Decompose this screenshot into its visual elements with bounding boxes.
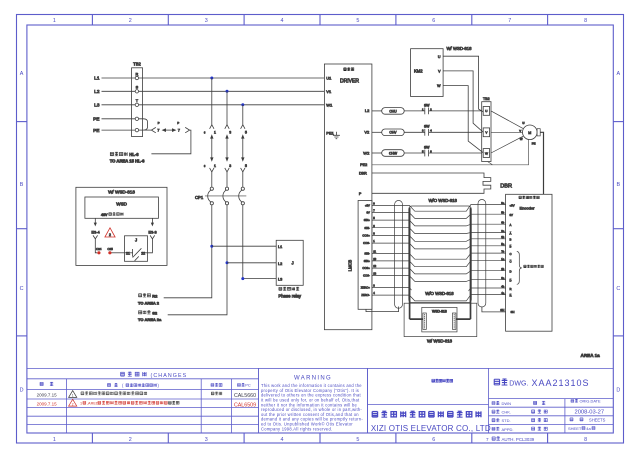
- pin 7b encoder C: [501, 249, 511, 256]
- svg-text:3: 3: [229, 130, 231, 134]
- svg-text:5a: 5a: [501, 242, 504, 246]
- svg-text:22: 22: [141, 251, 145, 255]
- wire encoder signal SIN+: [372, 220, 506, 226]
- wire motor to encoder: [540, 132, 543, 194]
- svg-text:CHK.: CHK.: [502, 410, 512, 415]
- svg-text:WARNING: WARNING: [294, 375, 332, 381]
- motor M: [523, 125, 541, 140]
- svg-text:SHEET: SHEET: [568, 426, 582, 431]
- svg-text:8: 8: [584, 437, 587, 443]
- contactor CP1 linkage: [205, 195, 246, 197]
- LMCB block: [347, 201, 372, 310]
- svg-text:SIN+: SIN+: [364, 218, 370, 222]
- wire PE to connector: [139, 129, 152, 131]
- wire encoder signal 0V: [372, 213, 506, 219]
- svg-text:PE2: PE2: [360, 163, 367, 167]
- svg-text:C: C: [510, 260, 512, 264]
- svg-text:E3-4: E3-4: [91, 230, 100, 235]
- wire TB2 PE tap: [488, 162, 493, 165]
- svg-text:W: W: [520, 137, 523, 141]
- wire shield SH left: [366, 307, 399, 312]
- svg-text:8: 8: [584, 18, 587, 24]
- svg-text:4: 4: [281, 18, 284, 24]
- wire S2 to area 2a: [168, 205, 227, 315]
- svg-text:TO AREA 2: TO AREA 2: [138, 300, 160, 305]
- svg-text:2: 2: [109, 233, 111, 237]
- svg-text:TO AREA 2a: TO AREA 2a: [138, 317, 162, 322]
- wire TB2 V to motor: [491, 131, 523, 133]
- svg-text:CHU: CHU: [389, 109, 397, 113]
- wire encoder signal ZERO-: [372, 295, 506, 301]
- svg-text:L2: L2: [278, 262, 282, 266]
- wire encoder signal ZERO+: [372, 288, 506, 294]
- label encoder positioning use: [524, 265, 526, 268]
- node junction phase 2: [226, 90, 229, 93]
- wire CHW segment: [372, 152, 382, 154]
- svg-text:U: U: [438, 55, 441, 59]
- node phase relay L1 tap: [210, 245, 213, 248]
- wire CHW to SW: [404, 152, 425, 154]
- label S2 TO AREA 2a: [138, 310, 162, 322]
- encoder block: [506, 194, 552, 331]
- svg-text:APPD.: APPD.: [502, 427, 514, 432]
- wire SW to TB2 CHV: [429, 131, 482, 133]
- svg-text:6a: 6a: [501, 276, 504, 280]
- svg-text:2: 2: [129, 18, 132, 24]
- wire SW to TB2 CHU: [429, 110, 482, 112]
- svg-text:R: R: [136, 72, 139, 76]
- switch SW 5-6: [422, 145, 432, 156]
- wire to CP1 pole 3: [242, 172, 244, 187]
- connector plug arrow 1: [211, 138, 213, 159]
- svg-text:P: P: [158, 121, 160, 125]
- pin 2b encoder D: [501, 267, 511, 274]
- svg-text:D: D: [510, 270, 512, 274]
- svg-text:3: 3: [373, 284, 375, 288]
- svg-text:CAL5660: CAL5660: [234, 393, 256, 399]
- svg-text:6: 6: [432, 18, 435, 24]
- svg-text:12: 12: [373, 264, 376, 268]
- connector plug arrow 2: [226, 138, 228, 159]
- wire L3/T phase: [139, 104, 325, 106]
- svg-text:ORIG.DATE: ORIG.DATE: [580, 399, 602, 404]
- svg-text:TO AREA 15 HL-6: TO AREA 15 HL-6: [110, 158, 145, 163]
- plug assembly box: [404, 303, 477, 336]
- wire KM2 W to TB2: [443, 86, 483, 153]
- svg-text:D: D: [616, 388, 620, 394]
- svg-text:8: 8: [373, 232, 375, 236]
- svg-text:PE: PE: [93, 128, 99, 134]
- svg-text:V1: V1: [326, 89, 332, 94]
- svg-text:V: V: [438, 70, 441, 74]
- svg-text:CAL6509: CAL6509: [234, 402, 256, 408]
- svg-text:COS-: COS-: [363, 274, 370, 278]
- brace encoder position signals: [517, 252, 522, 285]
- svg-text:(: (: [122, 383, 124, 388]
- svg-text:AREA 1a: AREA 1a: [581, 353, 601, 358]
- svg-text:XIZI OTIS ELEVATOR CO., LTD: XIZI OTIS ELEVATOR CO., LTD: [371, 424, 491, 433]
- svg-text:V: V: [519, 129, 521, 133]
- svg-text:S: S: [136, 86, 139, 90]
- wire PE2 to motor: [372, 140, 529, 165]
- svg-text:D: D: [20, 388, 24, 394]
- terminal block TB2 (incoming): [132, 62, 143, 137]
- wire phase 3 drop: [242, 105, 244, 125]
- svg-text:2008-03-27: 2008-03-27: [574, 410, 604, 416]
- wire encoder signal SIN+: [372, 261, 506, 267]
- terminal C24: [97, 251, 100, 254]
- svg-text:TB2: TB2: [133, 62, 141, 67]
- svg-text:U: U: [485, 109, 487, 113]
- wire encoder signal COS+: [372, 236, 506, 242]
- PE jumper TB2: [139, 119, 148, 130]
- node phase relay L2 tap: [226, 261, 229, 264]
- connector pin 5 upper half: [241, 125, 245, 129]
- svg-text:SH: SH: [511, 310, 515, 314]
- svg-text:LMCB: LMCB: [347, 260, 352, 272]
- svg-text:5b: 5b: [501, 211, 504, 215]
- svg-text:TB2: TB2: [483, 97, 490, 101]
- wire TB2 W to motor: [491, 136, 523, 153]
- svg-text:W/ WSD-818: W/ WSD-818: [447, 46, 473, 51]
- choke CHU: [382, 108, 405, 115]
- wire CHU to SW: [404, 110, 425, 112]
- svg-text:3: 3: [205, 18, 208, 24]
- svg-text:5: 5: [356, 437, 359, 443]
- svg-text:1: 1: [373, 239, 375, 243]
- svg-text:,ARED: ,ARED: [87, 401, 99, 405]
- wire phase 2 drop: [226, 91, 228, 124]
- svg-text:Phase relay: Phase relay: [278, 294, 302, 299]
- node phase relay L3 corner: [241, 277, 244, 280]
- svg-text:2: 2: [129, 437, 132, 443]
- contactor CP1 pole 2: [225, 187, 228, 190]
- svg-text:KM2: KM2: [414, 69, 423, 74]
- contactor CP1 pole 1: [210, 187, 213, 190]
- label R2 TO AREA 2: [138, 293, 160, 305]
- svg-text:11: 11: [373, 250, 376, 254]
- svg-text:2b: 2b: [501, 267, 504, 271]
- wire encoder signal SIN-: [372, 253, 506, 259]
- svg-text:D: D: [510, 279, 512, 283]
- WSD-818 plug: [422, 307, 457, 332]
- svg-text:W/O WSD-818: W/O WSD-818: [425, 291, 454, 296]
- svg-text:DRIVER: DRIVER: [340, 79, 359, 85]
- wire to phase relay L2: [227, 262, 276, 264]
- svg-text:COS+: COS+: [362, 266, 370, 270]
- svg-text:7: 7: [508, 18, 511, 24]
- svg-text:W/O WSD-818: W/O WSD-818: [428, 198, 457, 203]
- svg-text:L2: L2: [94, 89, 100, 95]
- svg-text:+5V: +5V: [365, 204, 370, 208]
- svg-text:4b: 4b: [501, 284, 504, 288]
- phase relay J box: [276, 240, 303, 285]
- connector pin 3 upper half: [225, 125, 229, 129]
- WSD-818 interface box: [76, 187, 167, 265]
- svg-text:S2: S2: [152, 310, 158, 315]
- svg-text:DBR: DBR: [359, 172, 367, 176]
- wire encoder signal +5V: [372, 205, 506, 212]
- svg-text:C24: C24: [96, 247, 102, 251]
- svg-text:AUTH. PCL3039: AUTH. PCL3039: [502, 437, 535, 442]
- svg-text:P: P: [177, 121, 179, 125]
- switch SW 3-4: [422, 125, 432, 136]
- svg-text:5: 5: [245, 164, 247, 168]
- choke CHV: [382, 129, 405, 136]
- svg-text:DWN: DWN: [502, 401, 512, 406]
- svg-text:R2: R2: [152, 293, 158, 298]
- svg-text:STD.: STD.: [502, 418, 511, 423]
- svg-text:C: C: [616, 286, 620, 292]
- svg-text:PE1: PE1: [326, 130, 334, 135]
- cable bundle W/O WSD-818: [409, 206, 472, 319]
- svg-text:COS-: COS-: [363, 241, 370, 245]
- resistor DBR: [372, 173, 512, 193]
- svg-text:U1: U1: [326, 76, 332, 81]
- svg-text:2009.7.15: 2009.7.15: [37, 402, 58, 407]
- wire WSD to E3-4: [94, 218, 96, 224]
- terminal block TB2 (machine): [482, 97, 491, 162]
- WSD 48V start signal block: [85, 197, 158, 218]
- cable gland left: [395, 201, 403, 309]
- svg-text:L2: L2: [365, 108, 370, 113]
- terminal C25: [108, 251, 111, 254]
- connector plug arrow 3: [242, 138, 244, 159]
- wire connector to HL-6 note: [151, 130, 191, 154]
- svg-text:WSD-818: WSD-818: [432, 309, 447, 313]
- svg-text:PE: PE: [93, 117, 99, 123]
- wire R2 to area 2: [164, 205, 212, 298]
- svg-text:T: T: [136, 99, 139, 103]
- svg-text:6: 6: [204, 130, 206, 134]
- cable drop to plug: [410, 318, 471, 320]
- svg-text:7: 7: [178, 128, 181, 133]
- svg-text:U: U: [522, 121, 524, 125]
- contactor CP1 pole 3: [241, 187, 244, 190]
- svg-text:0V: 0V: [367, 211, 370, 215]
- pin 2a encoder A: [501, 229, 511, 236]
- svg-text:W2: W2: [363, 150, 370, 155]
- svg-text:W: W: [485, 151, 488, 155]
- switch SW 1-2: [422, 103, 432, 114]
- svg-text:1: 1: [214, 164, 216, 168]
- svg-text:21: 21: [126, 251, 130, 255]
- svg-text:ZERO+: ZERO+: [361, 286, 370, 290]
- svg-text:B: B: [510, 238, 512, 242]
- inverter DRIVER U1: [324, 64, 372, 330]
- svg-text:2: 2: [72, 402, 74, 406]
- pin 6a encoder D: [501, 276, 511, 283]
- svg-text:Company 1998.All rights reserv: Company 1998.All rights reserved.: [261, 426, 332, 431]
- relay contact J 21-22: [125, 236, 148, 261]
- svg-text:SIN-: SIN-: [364, 252, 369, 256]
- wire encoder signal COS-: [372, 276, 506, 282]
- svg-text:DWG.: DWG.: [509, 381, 528, 388]
- svg-text:A: A: [20, 71, 24, 77]
- svg-text:1: 1: [53, 437, 56, 443]
- svg-text:M: M: [528, 131, 531, 135]
- cable gland right: [478, 200, 486, 308]
- svg-text:SIN+: SIN+: [364, 259, 370, 263]
- svg-text:COS+: COS+: [362, 234, 370, 238]
- svg-text:4: 4: [281, 437, 284, 443]
- svg-text:Encoder: Encoder: [520, 205, 536, 210]
- node junction phase 1: [210, 77, 213, 80]
- pin 5a encoder B: [501, 242, 511, 249]
- ground PE1: [333, 132, 340, 139]
- svg-text:B: B: [510, 245, 512, 249]
- wire phase 1 drop: [211, 78, 213, 125]
- wire encoder signal COS-: [372, 243, 506, 249]
- svg-text:7: 7: [373, 209, 375, 213]
- svg-text:P: P: [359, 192, 362, 196]
- label W/O WSD-818 bottom: [412, 288, 469, 297]
- svg-text:A: A: [510, 231, 512, 235]
- svg-text:3: 3: [229, 164, 231, 168]
- svg-text:HL-6: HL-6: [129, 152, 139, 157]
- svg-text:L3: L3: [94, 103, 100, 109]
- svg-text:J: J: [135, 237, 137, 242]
- svg-text:9: 9: [373, 202, 375, 206]
- svg-text:5: 5: [356, 18, 359, 24]
- wire to CP1 pole 2: [226, 172, 228, 187]
- svg-text:CHV: CHV: [389, 131, 397, 135]
- wire J contact to E3-3: [148, 239, 153, 253]
- wire L2/S phase: [139, 90, 325, 92]
- svg-text:B: B: [616, 182, 620, 188]
- wire KM2 U to TB2: [443, 56, 483, 112]
- svg-text:48V: 48V: [101, 213, 108, 217]
- svg-text:3: 3: [205, 437, 208, 443]
- wire CHV to SW: [404, 131, 425, 133]
- wire encoder signal COS+: [372, 268, 506, 274]
- svg-text:PE: PE: [532, 142, 536, 146]
- svg-text:R: R: [510, 294, 512, 298]
- svg-text:SH: SH: [500, 308, 504, 312]
- svg-text:CHW: CHW: [389, 151, 398, 155]
- svg-text:L1: L1: [94, 76, 100, 82]
- svg-text:W1: W1: [326, 102, 333, 107]
- svg-text:R: R: [510, 287, 512, 291]
- wire KM2 V to TB2: [443, 71, 483, 132]
- connector P7-P7 (to area 15): [151, 121, 189, 133]
- svg-text:W: W: [437, 84, 441, 88]
- wire SW to TB2 CHW: [429, 152, 482, 154]
- svg-text:7: 7: [486, 437, 489, 442]
- svg-text:A: A: [510, 223, 512, 227]
- svg-text:6b: 6b: [501, 221, 504, 225]
- node junction phase 3: [241, 103, 244, 106]
- svg-text:5: 5: [373, 216, 375, 220]
- wire TB2 U to motor: [491, 111, 523, 129]
- svg-text:1: 1: [80, 401, 82, 405]
- wire T to phase relay L3: [243, 205, 276, 279]
- pin 4b encoder R: [501, 284, 511, 291]
- svg-text:SIN-: SIN-: [364, 226, 369, 230]
- svg-text:10: 10: [373, 257, 376, 261]
- wire E3-4 to terminal C24: [95, 239, 97, 253]
- wire WSD to E3-3: [151, 218, 153, 224]
- pin 6b encoder A: [501, 221, 511, 228]
- svg-text:DBR: DBR: [500, 183, 512, 189]
- svg-text:PC: PC: [245, 383, 251, 388]
- svg-text:C: C: [510, 252, 512, 256]
- wire CHV segment: [372, 131, 382, 133]
- svg-text:SHEETS: SHEETS: [589, 418, 606, 423]
- pin 9a encoder +5V: [501, 201, 514, 208]
- wire CHU segment: [372, 110, 382, 112]
- svg-text:6: 6: [204, 164, 206, 168]
- svg-text:2009.7.15: 2009.7.15: [37, 393, 58, 398]
- svg-text:C: C: [20, 286, 24, 292]
- pin 5b encoder 0V: [501, 211, 513, 218]
- svg-text:6: 6: [432, 437, 435, 443]
- label to area 15 HL-6: [110, 152, 145, 163]
- svg-text:(CHANGES: (CHANGES: [151, 373, 188, 379]
- svg-text:ZERO-: ZERO-: [361, 293, 369, 297]
- svg-text:L1: L1: [278, 245, 282, 249]
- svg-text:1: 1: [72, 394, 74, 398]
- svg-text:7b: 7b: [501, 249, 504, 253]
- pin 1a encoder C: [501, 257, 511, 264]
- wire encoder signal SIN-: [372, 228, 506, 234]
- svg-text:W/ WSD-818: W/ WSD-818: [108, 190, 135, 195]
- svg-text:XAA21310S: XAA21310S: [532, 378, 590, 388]
- pin 3b encoder B: [501, 235, 511, 242]
- svg-text:5: 5: [245, 130, 247, 134]
- svg-text:3b: 3b: [501, 235, 504, 239]
- contactor KM2: [411, 49, 444, 97]
- svg-text:L3: L3: [278, 278, 282, 282]
- svg-text:9a: 9a: [501, 201, 504, 205]
- connector pin 1 upper half: [210, 125, 214, 129]
- svg-text:4a: 4a: [586, 426, 591, 431]
- wire to phase relay L1: [212, 245, 276, 247]
- choke CHW: [382, 150, 405, 157]
- svg-text:A: A: [616, 71, 620, 77]
- svg-text:1: 1: [53, 18, 56, 24]
- svg-text:J: J: [292, 261, 294, 266]
- wire C25 to J contact: [112, 252, 125, 254]
- svg-text:7: 7: [157, 128, 160, 133]
- wire shield SH right: [482, 307, 506, 312]
- svg-text:C25: C25: [107, 247, 113, 251]
- svg-text:2a: 2a: [501, 229, 504, 233]
- wire L1/R phase: [139, 77, 325, 79]
- wire to CP1 pole 1: [211, 172, 213, 187]
- svg-text:CP1: CP1: [195, 195, 204, 200]
- svg-text:4a: 4a: [501, 291, 504, 295]
- pin 4a encoder R: [501, 291, 511, 298]
- svg-text:): ): [158, 383, 160, 388]
- svg-text:0V: 0V: [510, 213, 514, 217]
- svg-text:W/ WSD-818: W/ WSD-818: [427, 339, 453, 344]
- svg-text:4: 4: [373, 291, 375, 295]
- label phase relay: [278, 287, 302, 299]
- svg-text:WSD: WSD: [116, 202, 127, 207]
- svg-text:+5V: +5V: [510, 203, 515, 207]
- svg-text:E3-3: E3-3: [148, 230, 156, 235]
- svg-text:1: 1: [214, 130, 216, 134]
- svg-text:6: 6: [373, 224, 375, 228]
- revision mark 2 triangle: [105, 228, 115, 237]
- svg-text:V2: V2: [364, 130, 370, 135]
- svg-text:B: B: [20, 182, 24, 188]
- svg-text:13: 13: [373, 272, 376, 276]
- svg-text:1a: 1a: [501, 257, 504, 261]
